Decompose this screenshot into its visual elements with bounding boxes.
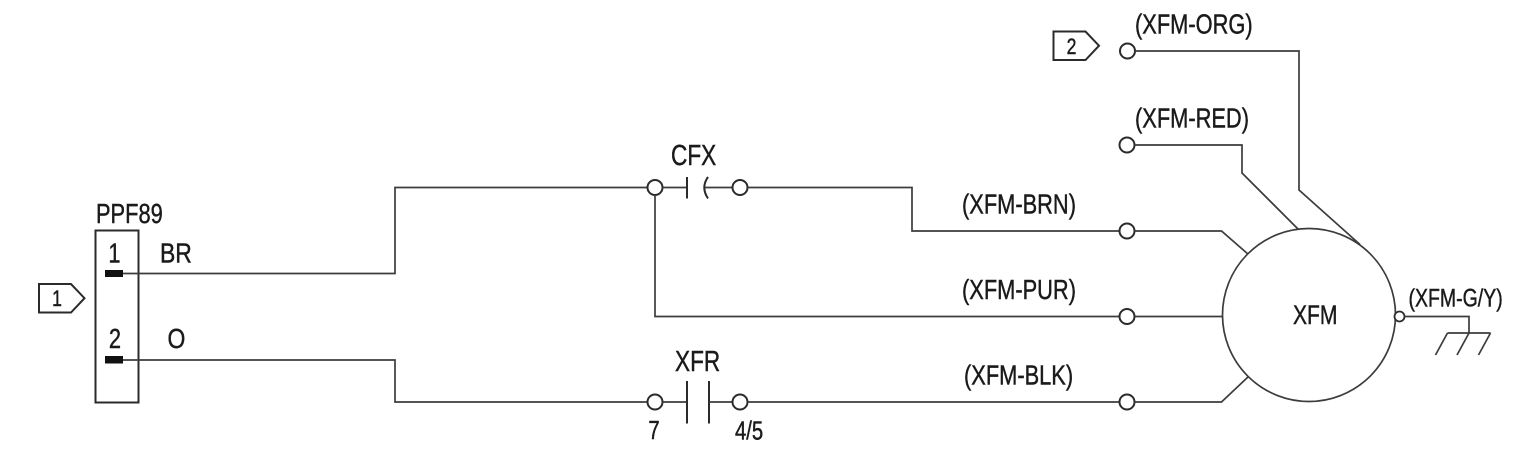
connector XFR right terminal circle (733, 395, 748, 410)
svg-text:2: 2 (109, 323, 121, 354)
wire CFX output to BRN row (748, 188, 1120, 232)
wire XFR plate 2 to right circle (709, 401, 733, 403)
svg-text:2: 2 (1067, 35, 1077, 59)
svg-text:1: 1 (52, 287, 62, 311)
svg-text:(XFM-RED): (XFM-RED) (1135, 103, 1249, 134)
connector XFR plate 1 (686, 381, 688, 424)
wire ORG to motor (1135, 51, 1360, 245)
connector CFX left terminal circle (648, 180, 663, 195)
wire pin1 to CFX (123, 188, 648, 274)
wire CFX socket to right circle (705, 187, 733, 189)
svg-text:BR: BR (160, 238, 192, 269)
connector XFR plate 2 (708, 381, 710, 424)
svg-text:PPF89: PPF89 (96, 198, 163, 229)
terminal circle PUR (1120, 309, 1135, 324)
connector XFR left terminal circle (648, 395, 663, 410)
junction at CFX left circle down to PUR row (655, 195, 1120, 317)
svg-text:(XFM-ORG): (XFM-ORG) (1135, 9, 1253, 40)
terminal circle G/Y (1395, 312, 1405, 322)
motor XFM body circle (1223, 229, 1396, 402)
svg-text:1: 1 (108, 238, 120, 269)
svg-text:(XFM-BRN): (XFM-BRN) (962, 189, 1076, 220)
flag 1 (harness arrow) (39, 284, 85, 313)
wire XFR circle to plate 1 (663, 401, 687, 403)
wire pin2 to XFR (123, 360, 648, 402)
svg-text:4/5: 4/5 (735, 416, 763, 445)
terminal circle BLK (1120, 395, 1135, 410)
ground (chassis) symbol (1436, 333, 1491, 355)
wire XFR output to BLK terminal (748, 401, 1120, 403)
svg-text:O: O (168, 324, 186, 355)
svg-text:(XFM-PUR): (XFM-PUR) (962, 274, 1076, 305)
svg-text:XFR: XFR (675, 344, 720, 377)
wire CFX circle to male pin (663, 187, 687, 189)
wire RED to motor (1135, 145, 1300, 231)
wire G/Y to ground (1405, 317, 1470, 334)
svg-text:CFX: CFX (671, 138, 716, 171)
svg-text:(XFM-BLK): (XFM-BLK) (964, 360, 1073, 391)
svg-text:XFM: XFM (1293, 301, 1337, 331)
terminal circle BRN (1120, 224, 1135, 239)
connector CFX male pin bar (686, 177, 688, 199)
terminal circle ORG (1120, 44, 1135, 59)
wire BLK to motor (1135, 377, 1249, 403)
connector CFX female socket arc (704, 177, 708, 199)
flag 2 (harness arrow) (1054, 32, 1100, 61)
connector CFX right terminal circle (733, 180, 748, 195)
connector PPF89 body (96, 231, 139, 403)
wire PUR to motor (1135, 316, 1223, 318)
wire BRN to motor (1135, 231, 1249, 255)
pin 2 terminal bar (105, 356, 123, 364)
svg-text:7: 7 (648, 416, 659, 445)
svg-text:(XFM-G/Y): (XFM-G/Y) (1409, 284, 1503, 312)
terminal circle RED (1120, 138, 1135, 153)
pin 1 terminal bar (105, 270, 123, 277)
